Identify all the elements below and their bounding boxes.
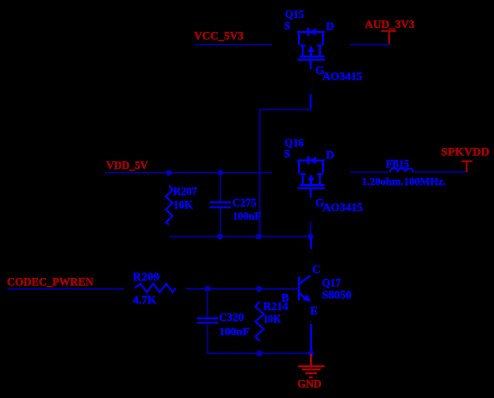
- svg-text:100nF: 100nF: [219, 326, 250, 338]
- junction emitter to ground: [308, 350, 314, 356]
- junction Q16 gate / Q17 collector: [308, 234, 314, 240]
- svg-text:10K: 10K: [263, 313, 281, 325]
- svg-text:10K: 10K: [173, 200, 193, 212]
- svg-text:VDD_5V: VDD_5V: [106, 160, 148, 172]
- svg-text:D: D: [326, 150, 334, 162]
- svg-text:AO3415: AO3415: [322, 71, 362, 83]
- svg-text:Q17: Q17: [322, 277, 341, 289]
- resistor R209 zigzag: [135, 284, 176, 293]
- svg-text:AO3415: AO3415: [323, 202, 363, 214]
- svg-text:Q15: Q15: [285, 7, 304, 21]
- junction Q15 gate line at mid rail: [256, 234, 262, 240]
- junction R214 bottom: [257, 350, 263, 356]
- wire C275 bottom lead: [219, 208, 221, 237]
- transistor Q17 NPN symbol: [299, 276, 311, 301]
- wire FB15 to SPKVDD: [415, 171, 467, 173]
- wire C275 top lead: [219, 173, 221, 202]
- junction C275 bottom: [217, 234, 223, 240]
- svg-text:S8050: S8050: [322, 289, 352, 301]
- svg-text:4.7K: 4.7K: [133, 294, 157, 306]
- svg-text:R209: R209: [133, 272, 160, 284]
- wire CODEC_PWREN net: [8, 288, 125, 290]
- transistor Q16 channel arrow: [308, 174, 315, 180]
- wire Q15 gate stub (bright): [310, 94, 312, 109]
- svg-text:S: S: [284, 149, 290, 161]
- transistor Q17 emitter pin: [310, 324, 312, 352]
- wire C320 top lead: [206, 289, 208, 318]
- svg-text:GND: GND: [297, 379, 321, 391]
- wire bottom ground rail: [208, 352, 311, 354]
- svg-text:C320: C320: [219, 312, 244, 324]
- wire VDD_5V rail: [105, 172, 272, 174]
- svg-text:S: S: [284, 21, 290, 33]
- svg-text:D: D: [326, 21, 334, 33]
- transistor Q15 body diode: [308, 28, 316, 36]
- resistor R207 zigzag: [166, 186, 173, 225]
- transistor Q17 emitter arrow: [303, 294, 312, 302]
- junction C320 top: [204, 286, 210, 292]
- svg-text:VCC_5V3: VCC_5V3: [194, 30, 244, 42]
- wire AUD_3V3 to Q15 drain: [350, 44, 390, 46]
- ground symbol GND: [298, 353, 324, 377]
- svg-text:C: C: [312, 264, 320, 276]
- junction C275 top: [217, 170, 223, 176]
- ferrite bead FB15 coil symbol: [390, 168, 413, 172]
- svg-text:C275: C275: [232, 197, 257, 209]
- junction R214 top: [256, 286, 262, 292]
- transistor Q15 P-MOSFET symbol: [297, 32, 325, 69]
- svg-text:CODEC_PWREN: CODEC_PWREN: [7, 276, 94, 288]
- svg-text:Q16: Q16: [285, 135, 304, 149]
- transistor Q15 channel arrow: [308, 46, 315, 52]
- svg-text:AUD_3V3: AUD_3V3: [365, 19, 415, 31]
- wire C320 bottom lead: [207, 323, 209, 353]
- transistor Q16 P-MOSFET symbol: [297, 161, 325, 198]
- transistor Q16 body diode: [308, 156, 316, 164]
- svg-text:100nF: 100nF: [233, 211, 262, 223]
- power port AUD_3V3 bar symbol: [381, 31, 396, 44]
- svg-text:FB15: FB15: [386, 158, 409, 170]
- svg-text:B: B: [281, 292, 289, 304]
- svg-text:1.20ohm.100MHz.: 1.20ohm.100MHz.: [362, 176, 447, 188]
- wire Q15 gate horizontal: [260, 109, 312, 111]
- power port SPKVDD bar symbol: [462, 161, 473, 172]
- wire Q16 drain to FB15: [350, 171, 389, 173]
- capacitor C275 plates: [210, 202, 231, 207]
- wire mid rail (gate node): [169, 236, 310, 238]
- transistor Q17 collector pin: [310, 237, 312, 249]
- svg-text:SPKVDD: SPKVDD: [441, 147, 489, 159]
- wire VCC_5V3 net: [194, 44, 271, 46]
- svg-text:R207: R207: [173, 186, 197, 198]
- svg-text:E: E: [310, 306, 318, 318]
- junction R207 top: [166, 170, 172, 176]
- resistor R214 zigzag: [255, 302, 263, 342]
- capacitor C320 plates: [197, 318, 219, 322]
- wire Q16 gate down: [310, 222, 312, 237]
- wire R209 to Q17 base: [186, 288, 298, 290]
- wire Q15 gate vertical down: [259, 110, 261, 237]
